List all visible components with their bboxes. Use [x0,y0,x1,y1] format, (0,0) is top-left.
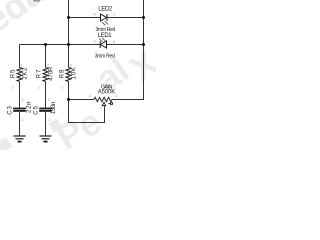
svg-text:LED2: LED2 [98,7,113,13]
svg-text:A500K: A500K [98,89,116,95]
svg-text:2: 2 [47,64,49,68]
svg-text:2K2: 2K2 [22,67,28,80]
svg-text:2: 2 [22,98,24,102]
svg-text:C3: C3 [7,106,13,115]
svg-text:1: 1 [61,86,63,90]
svg-text:2: 2 [100,107,102,111]
svg-text:10K: 10K [71,67,77,79]
svg-text:R7: R7 [37,69,43,78]
svg-text:1: 1 [48,118,50,122]
svg-text:2: 2 [48,98,50,102]
svg-text:1: 1 [116,94,118,98]
svg-text:R8: R8 [60,69,66,78]
svg-text:22n: 22n [26,102,32,114]
svg-text:C5: C5 [33,106,39,115]
svg-text:1: 1 [12,86,14,90]
svg-text:2: 2 [70,64,72,68]
svg-text:R5: R5 [11,69,17,78]
svg-text:1: 1 [22,118,24,122]
svg-text:LED1: LED1 [98,33,112,39]
svg-text:470R: 470R [48,66,54,81]
svg-text:3: 3 [89,94,91,98]
svg-text:150n: 150n [51,102,57,115]
svg-text:2: 2 [21,64,23,68]
svg-text:3mm Red: 3mm Red [96,27,116,33]
svg-text:1: 1 [38,86,40,90]
svg-text:3mm Red: 3mm Red [95,54,115,60]
